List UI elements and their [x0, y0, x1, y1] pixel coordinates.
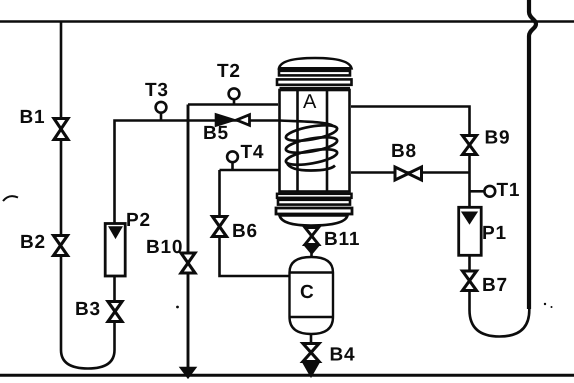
svg-text:B5: B5 [203, 123, 229, 144]
wire: bottom horizontal main line [0, 374, 574, 377]
wire: left riser from top line, U-bend, P2 riser, line to tank coil top [61, 23, 280, 369]
svg-text:T2: T2 [217, 61, 241, 82]
wire: B8 line tank right to riser [351, 171, 470, 174]
valve B2 [54, 236, 68, 256]
valve B9 [463, 136, 477, 155]
valve B11 [305, 228, 319, 245]
svg-text:B3: B3 [75, 299, 101, 320]
svg-text:A: A [303, 91, 317, 113]
wire: right vertical thick line with hop over top line [529, 0, 536, 309]
scan artifact: specks [544, 303, 546, 305]
tank A body [280, 90, 350, 192]
svg-text:B6: B6 [232, 221, 258, 242]
sensor T1 [470, 190, 484, 193]
svg-text:T1: T1 [497, 180, 521, 201]
valve B8 [395, 167, 422, 180]
valve B6 [213, 217, 227, 237]
wire: B6 riser down and over to vessel C [220, 170, 291, 276]
valve B7 [463, 271, 477, 291]
tank A bottom dome [280, 216, 348, 226]
sensor T4 [231, 162, 234, 170]
valve B4 [303, 344, 319, 362]
wire: bottom-right U-bend P1 riser to right line [470, 256, 530, 337]
arrow at bottom of B10 riser [181, 368, 194, 377]
tank A bottom flange ring 2 [278, 200, 350, 205]
coil entry stub [280, 121, 333, 127]
valve B3 [108, 302, 122, 322]
svg-text:B7: B7 [482, 275, 508, 296]
svg-text:B9: B9 [485, 128, 511, 149]
valve B1 [54, 119, 68, 140]
svg-text:P1: P1 [482, 223, 507, 244]
svg-text:P2: P2 [126, 210, 151, 231]
svg-text:T3: T3 [145, 80, 169, 101]
tank A inner tube left line [296, 90, 299, 192]
tank A top flange ring 2 [277, 79, 352, 84]
svg-text:B4: B4 [330, 345, 356, 366]
svg-text:B1: B1 [20, 107, 46, 128]
tank A bottom flange ring 1 [277, 194, 352, 198]
scan artifact: left edge arc [3, 196, 18, 201]
sensor T3 [160, 113, 163, 120]
svg-text:B8: B8 [391, 141, 417, 162]
valve B10 [181, 253, 195, 273]
coil loop 3 [285, 146, 338, 168]
svg-text:B11: B11 [324, 229, 360, 250]
coil loop 2 [285, 134, 338, 156]
coil bottom arc [287, 163, 335, 171]
tank A bottom flange ring 3 [276, 208, 352, 214]
tank A top ring line [280, 87, 351, 90]
wire: T4 line to tank coil bottom [220, 169, 281, 172]
vessel C [290, 257, 334, 334]
wire: top horizontal main line [0, 20, 574, 23]
tank A inner tube right line [326, 90, 329, 192]
check valve B5 [216, 115, 234, 126]
svg-text:B10: B10 [146, 237, 183, 258]
arrow below B4 to bottom line [305, 364, 318, 376]
pump P1 [459, 207, 482, 255]
tank A top flange ring 1 [279, 71, 350, 76]
wire: B10 riser vertical [187, 105, 190, 370]
svg-text:C: C [300, 282, 315, 303]
pump P2 [105, 224, 125, 277]
wire: tank bottom stem to C [310, 224, 313, 258]
sensor T2 [233, 99, 236, 104]
svg-text:B2: B2 [20, 232, 46, 253]
coil loop 1 [285, 122, 338, 144]
svg-text:T4: T4 [241, 142, 265, 163]
wire: tank right top line and B9/P1 riser [351, 107, 470, 208]
tank A top dome [279, 58, 352, 68]
wire: C bottom stem to B4 [310, 333, 313, 364]
arrow below B11 into C [306, 246, 319, 254]
wire: upper port line with T2 to tank [188, 103, 278, 106]
